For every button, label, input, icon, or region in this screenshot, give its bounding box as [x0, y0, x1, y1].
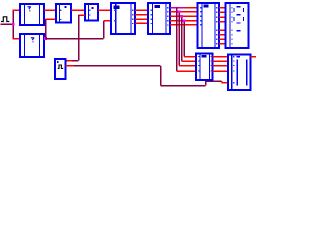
divider U3 (small box) [56, 4, 71, 23]
counter U2 (lower-left box) [20, 34, 44, 57]
clock generator CLK (bottom small box) [55, 59, 66, 79]
clock waveform annotation (black pulse glyph, top-left) [1, 17, 9, 22]
wire: maroon vertical x=103.5 up [103, 21, 105, 39]
7-segment display DS1 [226, 3, 249, 48]
wire: red into U5 lower-left pin [104, 20, 112, 22]
driver U8 (bottom) [196, 54, 213, 80]
node junction dot at (45.5,38.5) [44, 37, 47, 40]
wire: DS2 right stub red [251, 56, 257, 58]
wire: maroon vertical x=78.5 down to clock [78, 15, 80, 61]
wire: maroon/red back to clock generator pin [72, 60, 79, 62]
bundle vertical wire 2 (maroon, x=179) [178, 12, 180, 66]
bundle vertical wire 3 (maroon, x=181.5) [181, 16, 183, 61]
driver U7 (tall box) [198, 3, 220, 48]
wire: U4 out to U5 (red) [98, 9, 111, 11]
wires: U5 to U6 4-bit bus (red) [135, 10, 148, 23]
wire: U4 lower-left clock pin red [79, 14, 86, 16]
junction dot wire3 tap [180, 15, 183, 18]
wires: U6 to U7 bus, wire1 maroon then red [170, 7, 185, 9]
wire: U2 out red stub [44, 38, 46, 40]
wire: red to box U2 left pin [13, 38, 21, 40]
wire: maroon vertical x=45.5 up [45, 19, 47, 39]
decoder U6 [148, 3, 170, 34]
wires: U7 to display DS1, 8 red wires [219, 8, 226, 44]
junction dot wire4 tap [183, 19, 186, 22]
wires: bundle corners into U8 left pins (red) [177, 57, 197, 72]
wire: red to box U1 left pin [13, 9, 21, 11]
wire: maroon horizontal y=38.5 run to x=103.5 [46, 38, 104, 40]
wire: clock out 2 red stub [66, 65, 75, 67]
bundle vertical wire 4 (maroon, x=184) [183, 21, 185, 57]
divider U4 (small box) [85, 4, 98, 21]
7-segment display DS2 [228, 55, 251, 91]
wire: maroon vertical bus on left x=13 [12, 10, 14, 39]
wire: long maroon clock run to bottom right [74, 65, 161, 67]
wire: red into U3 lower-left pin [46, 18, 57, 20]
node junction dot at (13,24) [12, 23, 15, 26]
wire: red jog into DS2 bottom pin [221, 81, 223, 83]
wire: U1 out to U3 (red, y=10) [44, 9, 56, 11]
latch U5 [111, 3, 135, 34]
segments of digit [234, 7, 244, 31]
counter U1 (top-left box) [20, 4, 44, 25]
junction dot wire2 tap [178, 11, 181, 14]
wire: maroon horizontal from left edge to node under pulse glyph [1, 23, 14, 25]
segments of digit [236, 57, 247, 86]
wires: U8 to DS2, 4 red wires [213, 57, 229, 72]
bundle vertical wire 1 (maroon, x=176.5) [176, 8, 178, 71]
wire: U3 out to U4 (red) [71, 9, 85, 11]
